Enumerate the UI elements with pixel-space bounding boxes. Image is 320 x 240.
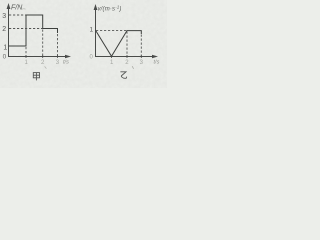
paper background bbox=[0, 0, 167, 88]
y-axis bbox=[8, 5, 10, 57]
y-axis arrowhead bbox=[7, 3, 11, 9]
dashed vertical t=2 bbox=[126, 32, 128, 57]
v curve solid bbox=[96, 30, 142, 56]
x-axis arrowhead bbox=[152, 55, 158, 59]
svg-text:0: 0 bbox=[3, 54, 7, 61]
caption 甲 (drawn) bbox=[33, 73, 39, 81]
svg-text:2: 2 bbox=[2, 26, 6, 33]
y-axis bbox=[95, 6, 97, 57]
svg-text:3: 3 bbox=[2, 13, 6, 20]
dashed level F=3 bbox=[9, 14, 26, 16]
x-axis bbox=[8, 56, 69, 58]
x ticks bbox=[111, 55, 113, 58]
svg-text:t/s: t/s bbox=[154, 60, 160, 66]
faint scan smudges bbox=[22, 8, 26, 11]
svg-text:1: 1 bbox=[90, 27, 94, 34]
step curve solid bbox=[9, 15, 58, 46]
dashed vertical t=2 bbox=[42, 30, 44, 57]
caption 乙 (drawn) bbox=[120, 72, 126, 79]
x-axis arrowhead bbox=[65, 55, 71, 59]
dashed vertical t=3 bbox=[140, 35, 142, 57]
svg-text:t/s: t/s bbox=[63, 60, 69, 66]
dashed vertical t=1 bbox=[25, 47, 27, 56]
svg-text:F/N: F/N bbox=[11, 5, 23, 12]
y-axis arrowhead bbox=[94, 4, 98, 10]
dashed vertical t=3 bbox=[57, 34, 59, 56]
dashed level F=2 bbox=[9, 28, 43, 30]
x ticks bbox=[25, 55, 27, 58]
dashed level v=1 bbox=[96, 30, 127, 32]
x-axis bbox=[95, 56, 156, 58]
svg-text:1: 1 bbox=[3, 45, 7, 52]
